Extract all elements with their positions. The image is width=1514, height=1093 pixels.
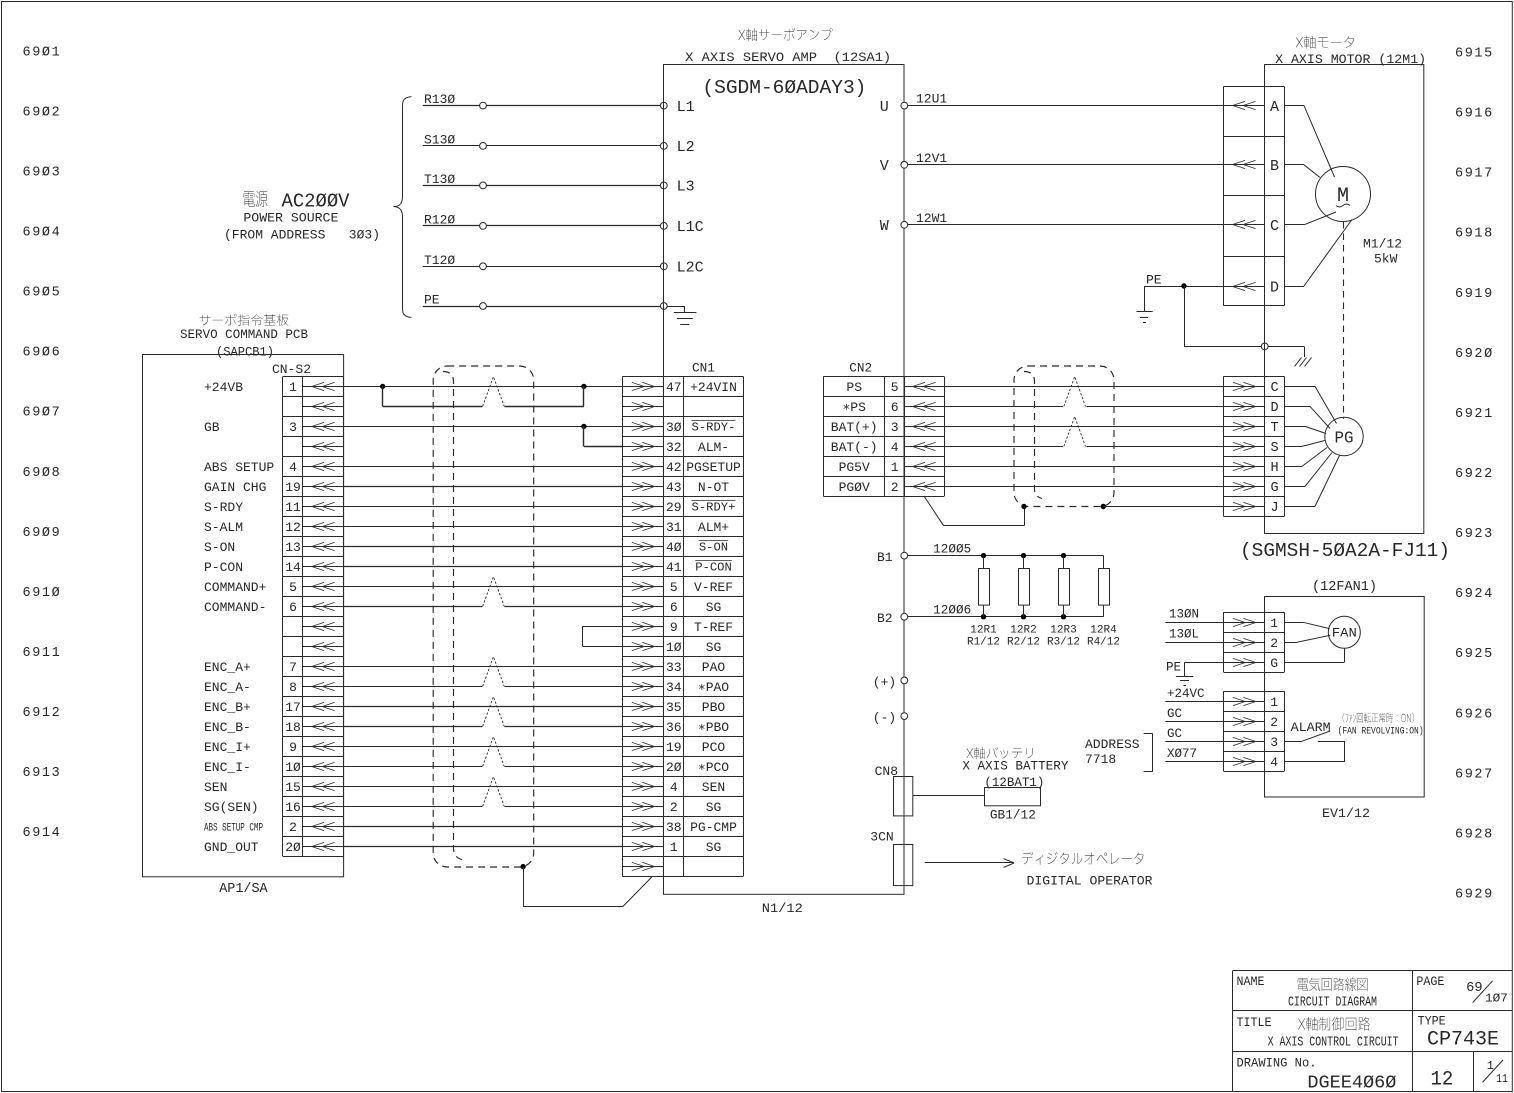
svg-text:12W1: 12W1 — [916, 211, 947, 226]
brace grouping power wires — [394, 97, 412, 318]
wires PG pins to encoder — [1284, 386, 1339, 506]
svg-text:1: 1 — [289, 380, 297, 395]
svg-text:69Ø3: 69Ø3 — [23, 165, 62, 180]
title block PAGE cell — [1416, 974, 1507, 1005]
fan power connector 1 2 G — [1224, 612, 1285, 672]
svg-text:2: 2 — [1270, 715, 1278, 730]
svg-text:6928: 6928 — [1455, 827, 1494, 842]
wire BAT+ to PG-T — [944, 426, 1224, 428]
svg-text:∗PCO: ∗PCO — [698, 760, 729, 775]
svg-text:3: 3 — [1270, 735, 1278, 750]
svg-text:X AXIS SERVO AMP (12SA1): X AXIS SERVO AMP (12SA1) — [685, 50, 891, 65]
svg-text:POWER SOURCE: POWER SOURCE — [243, 211, 338, 226]
svg-text:12ØØ5: 12ØØ5 — [933, 543, 971, 557]
wire X077 — [1165, 747, 1223, 762]
svg-text:J: J — [1270, 501, 1278, 516]
svg-text:T: T — [1270, 421, 1278, 436]
svg-text:1: 1 — [670, 840, 678, 855]
svg-text:1: 1 — [1270, 616, 1278, 631]
svg-text:69Ø1: 69Ø1 — [23, 45, 62, 60]
svg-text:L1: L1 — [677, 99, 695, 116]
svg-text:47: 47 — [666, 380, 682, 395]
wires fan pins to FAN — [1284, 622, 1344, 662]
amp input terminal labels L1 L2 L3 L1C L2C — [677, 99, 704, 277]
svg-text:8: 8 — [289, 680, 297, 695]
terminal minus — [873, 711, 908, 726]
wire +24VC — [1165, 687, 1223, 702]
wire ABS SETUP CMP to CN1-38 — [344, 826, 623, 828]
svg-text:PS: PS — [846, 380, 862, 395]
svg-text:6929: 6929 — [1455, 888, 1494, 903]
svg-text:5kW: 5kW — [1374, 252, 1398, 267]
svg-text:(SAPCB1): (SAPCB1) — [216, 345, 274, 360]
svg-text:CIRCUIT DIAGRAM: CIRCUIT DIAGRAM — [1288, 995, 1377, 1011]
wire GC 2 — [1165, 707, 1223, 722]
svg-text:L3: L3 — [677, 179, 695, 196]
svg-text:X AXIS CONTROL CIRCUIT: X AXIS CONTROL CIRCUIT — [1268, 1035, 1399, 1051]
shield wire to PG-J — [1101, 504, 1224, 509]
terminal plus — [873, 675, 908, 690]
svg-text:16: 16 — [285, 800, 301, 815]
svg-text:(SGDM-6ØADAY3): (SGDM-6ØADAY3) — [702, 77, 866, 99]
svg-text:PCO: PCO — [702, 740, 726, 755]
svg-text:SEN: SEN — [204, 780, 227, 795]
svg-text:PAO: PAO — [702, 660, 726, 675]
CN-S2 signal names — [204, 380, 274, 855]
connector CN1 table — [622, 376, 743, 876]
wire S-ON to CN1-40 — [344, 546, 623, 548]
svg-text:13ØL: 13ØL — [1169, 628, 1199, 642]
svg-text:H: H — [1270, 461, 1278, 476]
svg-text:N-OT: N-OT — [698, 480, 729, 495]
connector 3CN — [870, 830, 913, 886]
amp output terminal labels U V W — [880, 99, 889, 235]
svg-text:(12FAN1): (12FAN1) — [1312, 580, 1377, 595]
label 電源 AC200V power source — [244, 191, 350, 213]
svg-text:12: 12 — [285, 520, 301, 535]
svg-text:6911: 6911 — [23, 646, 62, 661]
svg-text:N1/12: N1/12 — [762, 901, 803, 916]
svg-text:PG5V: PG5V — [839, 460, 870, 475]
svg-text:B1: B1 — [877, 550, 893, 565]
svg-text:B: B — [1270, 158, 1279, 175]
wire PE to fan G with ground — [1166, 661, 1224, 686]
svg-text:B2: B2 — [877, 611, 893, 626]
svg-text:12V1: 12V1 — [916, 151, 947, 166]
svg-text:G: G — [1270, 656, 1278, 671]
svg-text:6915: 6915 — [1455, 47, 1494, 62]
svg-text:11: 11 — [285, 500, 301, 515]
svg-text:+24VIN: +24VIN — [690, 380, 737, 395]
svg-text:FAN: FAN — [1332, 626, 1357, 641]
svg-text:6925: 6925 — [1455, 647, 1494, 662]
svg-text:L1C: L1C — [677, 219, 704, 236]
title block TYPE cell — [1418, 1014, 1499, 1052]
grid reference numbers right column — [1455, 47, 1494, 903]
svg-text:A: A — [1270, 99, 1279, 116]
svg-text:(FAN REVOLVING:ON): (FAN REVOLVING:ON) — [1338, 726, 1424, 738]
svg-text:BAT(-): BAT(-) — [831, 440, 878, 455]
svg-text:69Ø6: 69Ø6 — [23, 346, 62, 361]
wire PG5V to PG-H — [944, 466, 1224, 468]
svg-text:PG: PG — [1335, 429, 1354, 448]
wire S130 supply line with terminal — [423, 132, 667, 149]
svg-text:BAT(+): BAT(+) — [831, 420, 878, 435]
wire GAIN CHG to CN1-43 — [344, 486, 623, 488]
svg-text:GAIN CHG: GAIN CHG — [204, 480, 266, 495]
label digital operator — [1022, 852, 1152, 889]
svg-text:P-CON: P-CON — [204, 560, 243, 575]
svg-text:14: 14 — [285, 560, 301, 575]
wire 130L — [1165, 628, 1223, 643]
svg-text:6913: 6913 — [23, 766, 62, 781]
resistor 12R3 — [1047, 556, 1080, 649]
svg-text:6912: 6912 — [23, 706, 62, 721]
arrow to digital operator — [925, 859, 1014, 868]
wire P-CON to CN1-41 — [344, 566, 623, 568]
svg-text:12R2: 12R2 — [1010, 625, 1036, 637]
svg-text:15: 15 — [285, 780, 301, 795]
dashed link motor to PG encoder — [1343, 222, 1345, 419]
svg-text:1: 1 — [891, 460, 899, 475]
wire 130N — [1165, 608, 1223, 623]
svg-text:6926: 6926 — [1455, 707, 1494, 722]
svg-text:35: 35 — [666, 700, 682, 715]
wire GB to CN1-30 and CN1-32 — [344, 424, 623, 447]
svg-text:PE: PE — [1166, 661, 1181, 675]
svg-text:69Ø5: 69Ø5 — [23, 286, 62, 301]
svg-text:PG-CMP: PG-CMP — [690, 820, 737, 835]
svg-text:R4/12: R4/12 — [1087, 637, 1120, 649]
svg-text:ABS SETUP CMP: ABS SETUP CMP — [204, 822, 263, 834]
svg-text:COMMAND+: COMMAND+ — [204, 580, 267, 595]
svg-text:GC: GC — [1167, 727, 1182, 741]
wires motor pins to M — [1284, 106, 1352, 287]
svg-text:6922: 6922 — [1455, 467, 1494, 482]
svg-text:(FROM ADDRESS 3Ø3): (FROM ADDRESS 3Ø3) — [224, 228, 380, 243]
wire PS to PG-C — [944, 386, 1224, 388]
svg-text:SG: SG — [706, 640, 722, 655]
svg-text:PE: PE — [424, 293, 440, 308]
title block sheet numbers — [1431, 1059, 1508, 1091]
svg-text:13ØN: 13ØN — [1169, 608, 1199, 622]
svg-text:1Ø: 1Ø — [666, 640, 682, 655]
wire ENC_I- to CN1-20 with twisted pair — [344, 737, 623, 767]
svg-text:36: 36 — [666, 720, 682, 735]
svg-text:C: C — [1270, 381, 1278, 396]
svg-text:R1/12: R1/12 — [967, 637, 1000, 649]
svg-text:GND_OUT: GND_OUT — [204, 840, 259, 855]
svg-text:C: C — [1270, 218, 1279, 235]
svg-text:CP743E: CP743E — [1427, 1029, 1499, 1052]
svg-text:S-ON: S-ON — [204, 540, 235, 555]
connector CN8 — [875, 764, 913, 816]
svg-text:TYPE: TYPE — [1418, 1014, 1446, 1029]
svg-text:12R3: 12R3 — [1050, 625, 1076, 637]
terminal B1 — [877, 550, 908, 565]
wire PE supply line with terminal — [423, 293, 667, 310]
jumper T-REF to SG loop — [583, 626, 623, 646]
svg-text:69Ø7: 69Ø7 — [23, 406, 62, 421]
svg-text:69Ø4: 69Ø4 — [23, 226, 62, 241]
svg-text:V-REF: V-REF — [694, 580, 733, 595]
motor power connector table A B C D — [1224, 87, 1285, 306]
svg-text:5: 5 — [670, 580, 678, 595]
title block — [1233, 971, 1513, 1092]
wire COMMAND+ to CN1-5 — [344, 586, 623, 588]
svg-text:38: 38 — [666, 820, 682, 835]
grid reference numbers left column — [23, 45, 62, 841]
svg-text:GB1/12: GB1/12 — [990, 808, 1036, 823]
svg-text:X AXIS BATTERY: X AXIS BATTERY — [962, 759, 1068, 774]
wire T120 supply line with terminal — [423, 253, 667, 270]
svg-text:G: G — [1270, 481, 1278, 496]
svg-text:5: 5 — [289, 580, 297, 595]
svg-text:∗PS: ∗PS — [842, 400, 866, 415]
svg-text:M: M — [1337, 185, 1349, 208]
svg-text:ENC_A+: ENC_A+ — [204, 660, 251, 675]
svg-text:2: 2 — [1270, 636, 1278, 651]
svg-text:S-ON: S-ON — [699, 541, 728, 555]
svg-text:9: 9 — [670, 620, 678, 635]
ground symbol at amp PE terminal — [667, 306, 696, 325]
svg-text:2Ø: 2Ø — [285, 840, 301, 855]
svg-text:SG: SG — [706, 600, 722, 615]
svg-text:3CN: 3CN — [870, 830, 893, 845]
svg-text:R3/12: R3/12 — [1047, 637, 1080, 649]
svg-text:ENC_B+: ENC_B+ — [204, 700, 251, 715]
svg-text:69Ø9: 69Ø9 — [23, 526, 62, 541]
svg-text:XØ77: XØ77 — [1167, 747, 1197, 761]
svg-text:6927: 6927 — [1455, 767, 1494, 782]
wire 12W1 amp to motor — [901, 211, 1224, 228]
svg-text:6: 6 — [891, 400, 899, 415]
svg-text:6919: 6919 — [1455, 287, 1494, 302]
svg-text:41: 41 — [666, 560, 682, 575]
wire COMMAND- to CN1-6 with twisted pair — [344, 577, 623, 607]
chassis ground inside motor — [1268, 346, 1311, 366]
svg-text:7718: 7718 — [1085, 752, 1116, 767]
svg-text:∗PBO: ∗PBO — [698, 720, 729, 735]
wire 12005 B1 bus — [908, 543, 1104, 559]
svg-text:4: 4 — [891, 440, 899, 455]
svg-text:19: 19 — [285, 480, 301, 495]
wire 12U1 amp to motor — [901, 92, 1224, 109]
svg-text:T13Ø: T13Ø — [424, 172, 455, 187]
title block NAME cell — [1237, 974, 1378, 1011]
svg-text:12ØØ6: 12ØØ6 — [933, 604, 971, 618]
net PE to motor frame — [1137, 273, 1269, 350]
svg-text:GC: GC — [1167, 707, 1182, 721]
svg-text:6924: 6924 — [1455, 587, 1494, 602]
svg-text:+24VC: +24VC — [1167, 687, 1205, 701]
svg-text:ABS SETUP: ABS SETUP — [204, 460, 274, 475]
svg-text:U: U — [880, 99, 889, 116]
svg-text:AC2ØØV: AC2ØØV — [282, 191, 351, 213]
title block TITLE cell — [1237, 1015, 1399, 1051]
svg-text:12R1: 12R1 — [970, 625, 997, 637]
wire PG0V to PG-G — [944, 486, 1224, 488]
svg-text:12R4: 12R4 — [1090, 625, 1117, 637]
svg-text:2: 2 — [289, 820, 297, 835]
svg-text:PGSETUP: PGSETUP — [686, 460, 741, 475]
svg-text:(+): (+) — [873, 675, 896, 690]
wire R120 supply line with terminal — [423, 212, 667, 229]
wire S-RDY to CN1-29 — [344, 506, 623, 508]
wire *PS to PG-D with twisted pair — [944, 377, 1224, 407]
svg-text:6921: 6921 — [1455, 407, 1494, 422]
svg-text:5: 5 — [891, 380, 899, 395]
svg-text:P-CON: P-CON — [695, 561, 732, 575]
svg-text:GB: GB — [204, 420, 220, 435]
svg-text:7: 7 — [289, 660, 297, 675]
svg-text:L2: L2 — [677, 139, 695, 156]
svg-text:PE: PE — [1146, 273, 1162, 288]
svg-text:ENC_A-: ENC_A- — [204, 680, 251, 695]
wire SG(SEN) to CN1-2 with twisted pair — [344, 777, 623, 807]
svg-text:ADDRESS: ADDRESS — [1085, 737, 1140, 752]
svg-text:COMMAND-: COMMAND- — [204, 600, 266, 615]
wire ENC_B- to CN1-36 with twisted pair — [344, 697, 623, 727]
motor M circle — [1316, 167, 1371, 222]
svg-text:ALM-: ALM- — [698, 440, 729, 455]
svg-text:(-): (-) — [873, 711, 896, 726]
svg-text:AP1/SA: AP1/SA — [219, 882, 268, 897]
svg-text:6: 6 — [289, 600, 297, 615]
svg-text:D: D — [1270, 279, 1279, 296]
svg-text:33: 33 — [666, 660, 682, 675]
wire SEN to CN1-4 — [344, 786, 623, 788]
svg-text:SG: SG — [706, 840, 722, 855]
svg-text:PBO: PBO — [702, 700, 726, 715]
svg-text:1Ø7: 1Ø7 — [1485, 991, 1508, 1005]
title block DRAWING cell — [1237, 1056, 1397, 1093]
svg-text:42: 42 — [666, 460, 682, 475]
svg-text:12U1: 12U1 — [916, 92, 947, 107]
fan motor circle — [1328, 616, 1360, 648]
PG encoder connector table C D T S H G J — [1224, 376, 1285, 516]
shield drain wire to CN1 — [520, 864, 652, 907]
wire S-ALM to CN1-31 — [344, 526, 623, 528]
alarm switch — [1284, 720, 1345, 762]
svg-text:9: 9 — [289, 740, 297, 755]
svg-text:1: 1 — [1270, 695, 1278, 710]
svg-text:31: 31 — [666, 520, 682, 535]
svg-text:69Ø2: 69Ø2 — [23, 105, 62, 120]
svg-text:6918: 6918 — [1455, 227, 1494, 242]
svg-text:43: 43 — [666, 480, 682, 495]
svg-text:2: 2 — [891, 480, 899, 495]
svg-text:SERVO COMMAND PCB: SERVO COMMAND PCB — [180, 328, 308, 342]
svg-text:D: D — [1270, 401, 1278, 416]
svg-text:19: 19 — [666, 740, 682, 755]
wire ENC_A+ to CN1-33 — [344, 666, 623, 668]
svg-text:L2C: L2C — [677, 260, 704, 277]
svg-text:R13Ø: R13Ø — [424, 92, 455, 107]
cable shield left dashed — [433, 366, 534, 867]
wire T130 supply line with terminal — [423, 172, 667, 189]
svg-text:6: 6 — [670, 600, 678, 615]
resistor 12R2 — [1007, 556, 1040, 649]
label X axis servo amp — [685, 28, 891, 65]
CN1 pin numbers — [666, 380, 682, 855]
wire ABS SETUP to CN1-42 — [344, 466, 623, 468]
svg-text:6917: 6917 — [1455, 167, 1494, 182]
wire BAT- to PG-S with twisted pair — [944, 417, 1224, 447]
battery GB1/12 — [913, 788, 1041, 823]
wire ENC_B+ to CN1-35 — [344, 706, 623, 708]
svg-text:T-REF: T-REF — [694, 620, 733, 635]
wire +24VB to CN1-47 with twisted pair loop — [344, 377, 623, 407]
svg-text:4: 4 — [1270, 755, 1278, 770]
svg-text:S: S — [1270, 441, 1278, 456]
svg-text:2: 2 — [670, 800, 678, 815]
motor box 12M1 — [1265, 65, 1424, 534]
CN-S2 pin numbers — [285, 380, 301, 855]
svg-text:∗PAO: ∗PAO — [698, 680, 729, 695]
svg-text:S-ALM: S-ALM — [204, 520, 243, 535]
svg-text:2Ø: 2Ø — [666, 760, 682, 775]
svg-text:SG(SEN): SG(SEN) — [204, 800, 259, 815]
svg-text:ALM+: ALM+ — [698, 520, 729, 535]
svg-text:M1/12: M1/12 — [1363, 237, 1402, 252]
svg-text:ENC_I-: ENC_I- — [204, 760, 251, 775]
svg-text:29: 29 — [666, 500, 682, 515]
shield drain CN2 to cable — [924, 496, 1026, 525]
svg-text:69Ø8: 69Ø8 — [23, 466, 62, 481]
svg-text:12: 12 — [1431, 1069, 1454, 1092]
label X axis battery — [962, 747, 1068, 790]
svg-text:6914: 6914 — [23, 826, 62, 841]
CN2 signal names and pins — [831, 380, 899, 495]
svg-text:DGEE4Ø6Ø: DGEE4Ø6Ø — [1307, 1073, 1396, 1093]
resistor 12R1 — [967, 556, 1000, 649]
svg-text:11: 11 — [1496, 1072, 1508, 1086]
svg-text:SEN: SEN — [702, 780, 725, 795]
CN1 signal names — [686, 380, 741, 855]
svg-text:4: 4 — [289, 460, 297, 475]
svg-text:(SGMSH-5ØA2A-FJ11): (SGMSH-5ØA2A-FJ11) — [1240, 540, 1450, 562]
svg-text:3: 3 — [891, 420, 899, 435]
svg-text:EV1/12: EV1/12 — [1322, 806, 1370, 821]
servo command PCB box — [143, 355, 344, 877]
svg-text:S-RDY+: S-RDY+ — [692, 501, 736, 515]
bracket ADDRESS 7718 — [1085, 734, 1153, 772]
label servo command PCB SAPCB1 — [180, 314, 308, 360]
wire 12006 B2 bus — [908, 604, 1104, 620]
svg-text:V: V — [880, 158, 889, 175]
label M1/12 5kW — [1363, 237, 1402, 267]
svg-text:CN-S2: CN-S2 — [272, 362, 311, 377]
label X axis motor — [1275, 36, 1426, 67]
svg-text:TITLE: TITLE — [1237, 1015, 1272, 1030]
svg-text:+24VB: +24VB — [204, 380, 243, 395]
wire GC 3 — [1165, 727, 1223, 742]
svg-text:PAGE: PAGE — [1416, 974, 1444, 989]
note fan revolving ON — [1338, 713, 1424, 738]
wire ENC_A- to CN1-34 with twisted pair — [344, 657, 623, 687]
wire GND_OUT to CN1-1 — [344, 846, 623, 848]
svg-text:ENC_B-: ENC_B- — [204, 720, 251, 735]
svg-text:18: 18 — [285, 720, 301, 735]
connector CN-S2 table — [283, 376, 344, 856]
svg-text:R2/12: R2/12 — [1007, 637, 1040, 649]
svg-text:691Ø: 691Ø — [23, 586, 62, 601]
svg-text:1Ø: 1Ø — [285, 760, 301, 775]
svg-text:34: 34 — [666, 680, 682, 695]
resistor 12R4 — [1087, 556, 1120, 649]
svg-text:S-RDY-: S-RDY- — [692, 421, 736, 435]
